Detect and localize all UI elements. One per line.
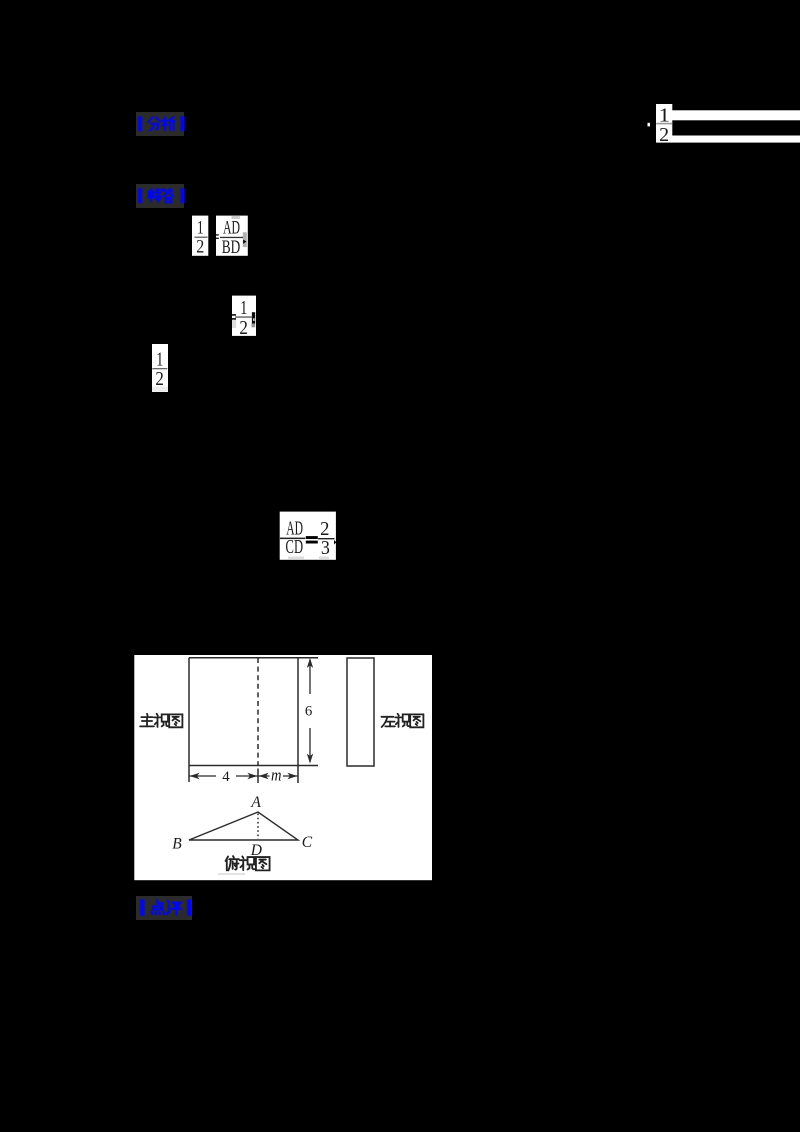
faint underline below fu-shi-tu: [218, 873, 245, 875]
svg-text:6: 6: [305, 704, 312, 720]
heading 3 blue text [dian ping]: [141, 900, 190, 914]
svg-text:2: 2: [239, 317, 248, 339]
label zuo-shi-tu (left view): [381, 714, 423, 728]
svg-text:m: m: [271, 765, 282, 784]
front view rectangle top edge: [189, 657, 318, 659]
front view rectangle bottom edge: [189, 765, 318, 767]
svg-text:BD: BD: [222, 238, 241, 258]
svg-text:CD: CD: [286, 536, 304, 558]
svg-text:2: 2: [155, 368, 164, 390]
front view rectangle left edge extended: [188, 658, 190, 782]
heading 2 highlight: [136, 184, 184, 208]
formula AD/CD = 2/3 box: [280, 512, 337, 560]
dashed line extension tick: [257, 769, 259, 784]
svg-text:2: 2: [196, 238, 204, 258]
svg-text:1: 1: [197, 219, 204, 239]
label fu-shi-tu (top view): [226, 856, 270, 870]
heading 1 blue text [fen xi]: [139, 117, 184, 130]
formula 1/2 box (third): [152, 344, 168, 392]
formula 1/2 = AD/BD : right AD/BD box: [216, 216, 248, 258]
top right white stripe lower: [672, 136, 800, 143]
heading 3 highlight: [136, 896, 192, 920]
svg-text:AD: AD: [223, 219, 240, 239]
top right white stripe upper: [672, 110, 800, 120]
formula = 1/2 box (second): [232, 296, 256, 339]
label m (white backing): [270, 770, 284, 782]
dimension line 4 / m: [189, 773, 298, 779]
label zhu-shi-tu (main view): [140, 714, 182, 728]
svg-text:C: C: [302, 834, 313, 851]
heading 1 highlight: [136, 112, 184, 136]
heading 2 blue text [jie da]: [139, 189, 184, 202]
svg-text:2: 2: [659, 125, 669, 146]
svg-text:B: B: [172, 836, 182, 853]
front view rectangle right edge extended: [297, 658, 299, 783]
figure: three-view drawing white panel: [134, 655, 432, 880]
svg-text:3: 3: [321, 537, 330, 559]
formula 1/2 = AD/BD : left 1/2 box: [192, 216, 208, 258]
label 4 (white backing to break dim line): [216, 769, 236, 782]
side view rectangle: [347, 658, 374, 766]
dimension 6 vertical arrow: [307, 658, 313, 764]
svg-text:A: A: [250, 794, 261, 811]
svg-text:4: 4: [222, 769, 230, 785]
top view triangle: [189, 812, 298, 840]
top right fraction 1/2 white box: [648, 104, 673, 146]
dashed mid line: [257, 658, 259, 766]
svg-text:1: 1: [240, 297, 247, 319]
